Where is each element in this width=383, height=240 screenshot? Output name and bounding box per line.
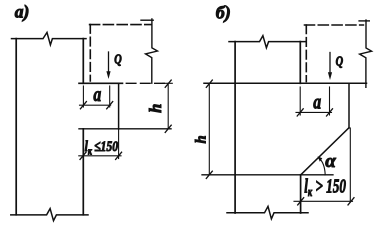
lk dimension ticks (fig a) [80, 152, 86, 159]
column right face lower (fig b) [300, 175, 302, 213]
beam left dashed edge (fig a) [89, 25, 91, 81]
column right face lower (fig a) [82, 129, 84, 215]
corbel sloped bottom (fig b) [301, 128, 349, 175]
column right face upper (fig b) [299, 42, 301, 84]
a dimension ticks (fig a) [80, 102, 86, 109]
corbel tip face (fig b) [348, 83, 350, 128]
h dimension ticks (fig a) [165, 80, 171, 87]
corbel bottom level line with h extension and angle reference (fig b) [202, 174, 333, 176]
a dimension ticks (fig b) [297, 109, 303, 116]
beam left dashed edge (fig b) [305, 25, 307, 82]
lk dimension ticks (fig b) [298, 198, 304, 205]
corbel top line with h extension (fig b) [204, 82, 367, 84]
column bottom cut line with break (fig b) [227, 206, 308, 219]
beam top tick at break (fig a) [141, 19, 153, 21]
corbel top (fig a) [79, 82, 123, 84]
column top cut line with break (fig a) [12, 32, 87, 45]
svg-text:a: a [313, 90, 321, 114]
angle arc with arrowhead (fig b) [319, 158, 325, 175]
column right face upper (fig a) [82, 39, 84, 84]
column top cut line with break (fig b) [229, 36, 305, 48]
corbel tip extension line for lk dim (fig a) [118, 129, 120, 159]
load arrow Q (fig b) [329, 53, 331, 75]
beam top tick at break (fig b) [359, 20, 369, 22]
a dimension line (fig b) [296, 111, 332, 113]
svg-text:lк > 150: lк > 150 [304, 175, 346, 200]
beam break line vertical (fig b) [360, 20, 372, 87]
svg-text:Q: Q [114, 51, 122, 67]
svg-text:α: α [325, 151, 336, 172]
svg-text:Q: Q [336, 53, 344, 69]
corbel bottom and h extension (fig a) [79, 128, 171, 130]
column left face (fig a) [15, 39, 17, 215]
h top extension (fig a) [163, 82, 172, 84]
beam break line vertical (fig a) [146, 19, 158, 83]
column left face (fig b) [234, 42, 236, 213]
h dimension line (fig b) [208, 83, 210, 175]
a dimension line (fig a) [80, 104, 111, 106]
svg-text:h: h [146, 104, 165, 113]
column bottom cut line with break (fig a) [11, 209, 88, 221]
corbel tip face (fig a) [118, 83, 120, 129]
h dimension line (fig a) [167, 83, 169, 129]
beam top dashed edge (fig a) [90, 24, 152, 26]
load arrow Q (fig a) [108, 52, 110, 73]
a dimension extension lines (fig a) [82, 86, 84, 107]
svg-text:h: h [194, 135, 210, 143]
a dimension extension lines (fig b) [299, 87, 301, 115]
beam bottom dashed edge right of corbel (fig a) [126, 82, 165, 84]
beam top dashed edge (fig b) [305, 24, 364, 26]
svg-text:а): а) [15, 2, 30, 22]
lk dimension line (fig a) [79, 155, 121, 157]
svg-text:a: a [93, 83, 101, 107]
svg-text:lк ≤150: lк ≤150 [85, 138, 119, 157]
corbel tip extension for lk dim (fig b) [349, 128, 351, 202]
lk dimension line (fig b) [294, 200, 353, 202]
svg-text:б): б) [216, 3, 231, 24]
h dimension ticks (fig b) [206, 80, 212, 87]
